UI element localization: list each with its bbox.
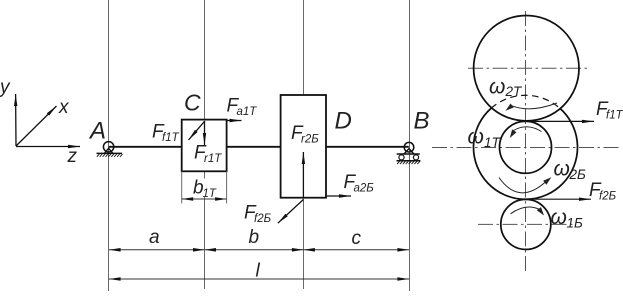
svg-text:ω: ω	[554, 158, 570, 181]
svg-text:f2Б: f2Б	[599, 191, 617, 203]
svg-text:1Т: 1Т	[203, 188, 217, 200]
svg-text:b: b	[249, 227, 260, 248]
svg-text:z: z	[67, 146, 78, 167]
svg-text:B: B	[414, 108, 430, 135]
svg-text:a2Б: a2Б	[354, 183, 375, 195]
svg-text:x: x	[58, 97, 70, 118]
svg-text:r2Б: r2Б	[301, 134, 319, 146]
svg-text:f1Т: f1Т	[162, 132, 180, 144]
svg-text:C: C	[184, 90, 201, 116]
svg-text:c: c	[352, 228, 362, 249]
svg-text:y: y	[0, 77, 11, 98]
svg-text:2Б: 2Б	[569, 167, 587, 182]
svg-text:a1Т: a1Т	[237, 106, 258, 118]
svg-text:a: a	[149, 227, 160, 248]
svg-text:f1Т: f1Т	[606, 110, 623, 122]
svg-text:2Т: 2Т	[505, 84, 524, 99]
svg-text:ω: ω	[551, 206, 567, 229]
svg-text:r1Т: r1Т	[204, 153, 222, 165]
svg-text:D: D	[335, 108, 352, 135]
svg-text:A: A	[88, 118, 106, 145]
svg-text:ω: ω	[468, 126, 484, 149]
svg-text:1Б: 1Б	[567, 216, 584, 231]
svg-text:ω: ω	[489, 76, 505, 99]
svg-text:f2Б: f2Б	[254, 213, 272, 225]
svg-text:l: l	[256, 261, 261, 282]
svg-text:1Т: 1Т	[484, 135, 502, 150]
